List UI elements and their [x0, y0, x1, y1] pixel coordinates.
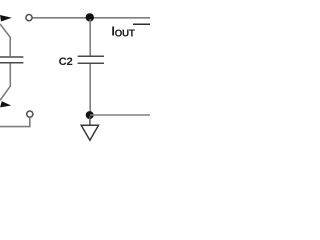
terminal circle bottom-left [27, 111, 33, 117]
svg-text:C2: C2 [59, 56, 73, 68]
terminal circle top-left [26, 15, 32, 21]
wire stub below bottom-left terminal [29, 117, 31, 126]
svg-text:OUT: OUT [115, 29, 135, 40]
wire bottom-left horizontal to left edge [0, 126, 31, 128]
wire from left cap up-left to switch (cropped) [0, 24, 10, 57]
current arrow line above IOUT (cropped at right edge) [133, 23, 150, 25]
wire top horizontal net [32, 17, 150, 19]
capacitor C2 [78, 56, 104, 63]
wire bottom horizontal to right edge [90, 114, 150, 116]
junction dot bottom (ground node) [86, 111, 94, 119]
wire from C2 down to bottom junction [89, 64, 91, 113]
capacitor left (flying cap, cropped at left edge) [0, 57, 23, 63]
wire stub from bottom junction to ground [89, 116, 91, 125]
wire from left cap down-left to switch (cropped) [0, 63, 10, 100]
arrowhead top-left (switch arrow, cropped) [0, 15, 12, 22]
junction dot top (node at C2+ and IOUT rail) [86, 13, 94, 21]
wire from top junction down to C2 [89, 19, 91, 56]
ground [81, 125, 98, 140]
arrowhead bottom-left (switch arrow, cropped) [0, 101, 11, 107]
